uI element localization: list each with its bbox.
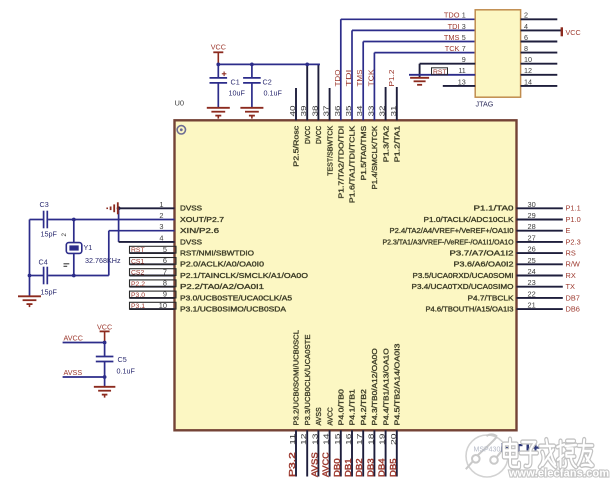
wire pin 18 stub <box>373 430 375 476</box>
svg-text:RX: RX <box>566 271 576 280</box>
wire C5 to ground <box>104 377 106 387</box>
wire pin 14 stub <box>329 430 331 476</box>
svg-text:3: 3 <box>462 22 466 31</box>
svg-text:P4.7/TBCLK: P4.7/TBCLK <box>468 293 514 302</box>
wire rail to ground <box>29 276 31 297</box>
svg-text:33: 33 <box>366 106 375 117</box>
svg-text:P4.0/TB0: P4.0/TB0 <box>337 389 346 425</box>
svg-text:Y1: Y1 <box>84 243 93 252</box>
svg-text:P3.5/UCA0RXD/UCA0SOMI: P3.5/UCA0RXD/UCA0SOMI <box>413 271 514 280</box>
wire pin 12 stub <box>306 430 308 476</box>
C1 plus mark <box>222 72 227 77</box>
wire pin 16 stub <box>351 430 353 476</box>
svg-text:15pF: 15pF <box>41 229 58 238</box>
wire pin 20 stub <box>396 430 398 476</box>
svg-text:VCC: VCC <box>97 322 112 331</box>
svg-text:TEST/SBWTCK: TEST/SBWTCK <box>325 126 334 176</box>
svg-text:C5: C5 <box>118 355 127 364</box>
port CS1 box <box>130 258 177 265</box>
wire pin 6 stub <box>130 263 175 265</box>
capacitor C2 <box>251 64 253 77</box>
wire TDO vertical <box>340 19 342 120</box>
svg-text:P1.5/TA0/TMS: P1.5/TA0/TMS <box>359 126 368 181</box>
svg-text:RST: RST <box>433 69 447 76</box>
svg-text:DB4: DB4 <box>378 458 387 477</box>
svg-text:10uF: 10uF <box>229 89 246 98</box>
svg-text:14: 14 <box>322 434 331 446</box>
port P3.1 box <box>130 302 177 309</box>
capacitor C4 <box>44 267 48 285</box>
svg-text:5: 5 <box>163 245 167 254</box>
wire crystal bottom <box>73 253 75 275</box>
wire pin 40 stub <box>295 88 297 120</box>
svg-text:AVCC: AVCC <box>64 333 83 342</box>
wire C4 to rail <box>30 275 44 277</box>
svg-text:XIN/P2.6: XIN/P2.6 <box>180 226 219 235</box>
svg-text:U0: U0 <box>175 99 185 108</box>
wire pin 13 stub <box>317 430 319 476</box>
svg-text:VCC: VCC <box>566 28 581 37</box>
svg-text:38: 38 <box>310 106 319 117</box>
svg-text:12: 12 <box>299 434 308 446</box>
svg-text:P1.0/TACLK/ADC10CLK: P1.0/TACLK/ADC10CLK <box>424 215 514 224</box>
svg-text:DB6: DB6 <box>566 305 580 314</box>
svg-text:DB7: DB7 <box>566 293 580 302</box>
svg-text:RST/NMI/SBWTDIO: RST/NMI/SBWTDIO <box>180 249 254 258</box>
ground crystal <box>18 295 41 297</box>
svg-text:26: 26 <box>528 245 536 254</box>
svg-text:P2.3: P2.3 <box>566 237 581 246</box>
svg-text:39: 39 <box>299 106 308 117</box>
wire AVCC <box>63 342 105 344</box>
wire TDI horizontal <box>352 29 475 31</box>
capacitor C5 <box>104 343 106 357</box>
svg-text:32.768KHz: 32.768KHz <box>85 256 121 265</box>
ground C2 <box>240 107 263 109</box>
svg-text:17: 17 <box>355 434 364 446</box>
port P2.2 box <box>130 280 177 287</box>
svg-text:AVCC: AVCC <box>325 407 334 425</box>
svg-text:P1.4/SMCLK/TCK: P1.4/SMCLK/TCK <box>370 126 379 190</box>
svg-text:2: 2 <box>61 233 68 237</box>
copyright marker inside U0 <box>177 126 185 134</box>
wire pin 19 stub <box>385 430 387 476</box>
svg-text:19: 19 <box>378 434 387 446</box>
junction AVCC <box>103 341 107 345</box>
wire pin 11 stub <box>295 430 297 476</box>
crystal pin 1 mark <box>64 264 70 267</box>
wire rail corner to pin38 <box>318 63 319 65</box>
junction C4 rail <box>28 274 32 278</box>
svg-text:9: 9 <box>163 290 167 299</box>
svg-text:RS: RS <box>566 249 576 258</box>
svg-text:TMS: TMS <box>444 33 460 42</box>
wire pin 21 <box>517 308 563 310</box>
svg-text:12: 12 <box>524 66 532 75</box>
wire TDI vertical <box>351 30 353 120</box>
svg-text:P3.3/UCB0CLK/UCA0STE: P3.3/UCB0CLK/UCA0STE <box>303 334 312 425</box>
junction XIN crystal <box>72 274 76 278</box>
svg-text:P3.1/UCB0SIMO/UCB0SDA: P3.1/UCB0SIMO/UCB0SDA <box>180 305 286 314</box>
svg-text:22: 22 <box>528 289 536 298</box>
svg-text:P4.5/TB2/A14/OA0I3: P4.5/TB2/A14/OA0I3 <box>393 344 402 426</box>
wire XOUT pin2 <box>48 219 174 221</box>
junction pin39 rail <box>305 63 309 67</box>
wire pin 38 to VCC rail <box>317 64 319 120</box>
svg-text:TCK: TCK <box>366 70 375 87</box>
svg-text:5: 5 <box>462 33 466 42</box>
svg-text:TDI: TDI <box>344 70 353 87</box>
svg-text:DVCC: DVCC <box>314 126 323 144</box>
wire TCK horizontal <box>374 52 475 54</box>
wire pin 7 stub <box>130 275 175 277</box>
svg-text:24: 24 <box>528 267 536 276</box>
wire JTAG pin 12 <box>521 74 558 76</box>
junction AVSS <box>103 375 107 379</box>
svg-text:JTAG: JTAG <box>476 99 494 108</box>
svg-text:P4.3/TB0/A12/OA0O: P4.3/TB0/A12/OA0O <box>370 348 379 426</box>
svg-text:DVSS: DVSS <box>180 204 202 213</box>
svg-text:XOUT/P2.7: XOUT/P2.7 <box>180 215 224 224</box>
capacitor C1 <box>217 64 219 77</box>
svg-text:P2.3/TA1/A3/VREF-/VeREF-/OA1I1: P2.3/TA1/A3/VREF-/VeREF-/OA1I1/OA1O <box>383 237 514 246</box>
wire JTAG pin 6 <box>521 41 558 43</box>
wire pin 32 stub <box>385 87 387 120</box>
svg-text:DVSS: DVSS <box>180 237 202 246</box>
svg-text:P1.2: P1.2 <box>387 70 396 87</box>
svg-text:11: 11 <box>458 66 465 75</box>
wire XIN vertical <box>108 231 110 276</box>
wire DVSS link pin1-pin4 <box>118 208 120 242</box>
junction XOUT crystal <box>72 218 76 222</box>
svg-text:32: 32 <box>378 106 387 117</box>
wire pin 25 <box>517 263 563 265</box>
svg-text:TMS: TMS <box>355 70 364 87</box>
wire JTAG pin 13 <box>443 85 475 87</box>
junction pin1/ground link <box>117 206 121 210</box>
ground C5 <box>94 386 116 388</box>
wire TDO horizontal <box>341 18 475 20</box>
svg-text:P4.4/TB1/A13/OA1O: P4.4/TB1/A13/OA1O <box>381 348 390 426</box>
svg-text:P1.3/TA2: P1.3/TA2 <box>381 126 390 162</box>
svg-text:11: 11 <box>288 434 297 446</box>
svg-text:R/W: R/W <box>566 260 580 269</box>
svg-text:40: 40 <box>288 106 297 117</box>
svg-text:P3.1: P3.1 <box>131 303 145 310</box>
svg-text:18: 18 <box>366 434 375 446</box>
svg-text:P2.2/TA0/A2/OA0I1: P2.2/TA0/A2/OA0I1 <box>180 282 264 291</box>
svg-text:DB2: DB2 <box>355 458 364 477</box>
svg-text:28: 28 <box>528 222 536 231</box>
wire XIN pin3 horizontal <box>109 230 175 232</box>
svg-text:DB5: DB5 <box>389 458 398 477</box>
wire crystal top <box>73 220 75 244</box>
svg-text:AVSS: AVSS <box>310 452 319 477</box>
svg-text:P3.0/UCB0STE/UCA0CLK/A5: P3.0/UCB0STE/UCA0CLK/A5 <box>180 293 292 302</box>
wire pin 9 stub <box>130 297 175 299</box>
svg-text:0.1uF: 0.1uF <box>117 367 136 376</box>
svg-text:1: 1 <box>462 11 466 20</box>
svg-text:7: 7 <box>462 44 466 53</box>
wire JTAG pin 9 to ground <box>420 63 476 65</box>
wire pin 39 to VCC rail <box>306 64 308 120</box>
svg-text:P2.1/TAINCLK/SMCLK/A1/OA0O: P2.1/TAINCLK/SMCLK/A1/OA0O <box>180 271 308 280</box>
wire XIN bottom row <box>48 275 109 277</box>
wire pin 31 stub <box>396 87 398 120</box>
svg-text:0.1uF: 0.1uF <box>264 89 283 98</box>
svg-text:TDI: TDI <box>448 22 460 31</box>
wire pin 27 <box>517 241 563 243</box>
wire TMS horizontal <box>363 41 475 43</box>
wire JTAG pin 14 <box>521 85 558 87</box>
svg-text:P3.4/UCA0TXD/UCA0SIMO: P3.4/UCA0TXD/UCA0SIMO <box>412 282 514 291</box>
svg-text:P4.2/TB2: P4.2/TB2 <box>359 389 368 425</box>
svg-text:E: E <box>566 226 571 235</box>
port P3.0 box <box>130 291 177 298</box>
svg-text:C4: C4 <box>39 257 48 266</box>
wire AVSS <box>63 376 105 378</box>
svg-text:P2.4/TA2/A4/VREF+/VeREF+/OA1I0: P2.4/TA2/A4/VREF+/VeREF+/OA1I0 <box>390 226 514 235</box>
svg-text:7: 7 <box>163 267 167 276</box>
svg-text:36: 36 <box>333 106 342 117</box>
wire pin 10 stub <box>130 308 175 310</box>
ground JTAG pin9 <box>410 78 429 85</box>
svg-text:P3.2/UCB0SOMI/UCB0SCL: P3.2/UCB0SOMI/UCB0SCL <box>292 330 301 426</box>
svg-text:34: 34 <box>355 106 364 117</box>
capacitor C3 <box>44 211 48 229</box>
svg-text:20: 20 <box>389 434 398 446</box>
svg-text:27: 27 <box>528 233 536 242</box>
svg-text:30: 30 <box>528 200 536 209</box>
svg-text:P2.5/Rosc: P2.5/Rosc <box>292 125 301 166</box>
wire pin 26 <box>517 252 563 254</box>
junction C2 rail <box>250 63 254 67</box>
svg-text:P3.2: P3.2 <box>288 452 297 477</box>
svg-text:AVCC: AVCC <box>322 452 331 477</box>
wire JTAG pin 8 <box>521 52 558 54</box>
svg-text:www.elecfans.com: www.elecfans.com <box>508 468 609 480</box>
svg-text:CS1: CS1 <box>131 258 144 265</box>
wire VCC rail <box>218 63 319 65</box>
wire JTAG pin 4 <box>521 29 561 31</box>
wire pin 15 stub <box>340 430 342 476</box>
wire C3 to rail <box>30 219 44 221</box>
crystal Y1 <box>66 243 82 254</box>
svg-text:6: 6 <box>163 256 167 265</box>
svg-text:P4.6/TBOUTH/A15/OA1I3: P4.6/TBOUTH/A15/OA1I3 <box>426 305 514 314</box>
port CS2 box <box>130 269 177 276</box>
svg-text:P3.0: P3.0 <box>131 292 145 299</box>
wire JTAG pin 2 <box>521 18 558 20</box>
svg-text:29: 29 <box>528 211 536 220</box>
svg-text:8: 8 <box>163 279 167 288</box>
wire pin 30 <box>517 207 563 209</box>
svg-text:P1.2/TA1: P1.2/TA1 <box>393 126 402 162</box>
svg-text:AVSS: AVSS <box>64 368 83 377</box>
svg-text:15: 15 <box>333 434 342 446</box>
svg-text:DB1: DB1 <box>344 458 353 477</box>
svg-text:RST: RST <box>131 247 145 254</box>
svg-text:23: 23 <box>528 278 536 287</box>
wire pin 29 <box>517 219 563 221</box>
svg-text:10: 10 <box>159 301 167 310</box>
watermark logo circle <box>466 435 508 477</box>
svg-text:37: 37 <box>322 106 331 117</box>
svg-text:DB3: DB3 <box>366 458 375 477</box>
svg-text:C2: C2 <box>263 77 272 86</box>
svg-text:C3: C3 <box>40 200 49 209</box>
svg-text:25: 25 <box>528 256 536 265</box>
wire ground rail left <box>29 220 31 276</box>
wire JTAG pin 11 RST <box>409 74 475 76</box>
wire pin 24 <box>517 275 563 277</box>
svg-text:P2.0/ACLK/A0/OA0I0: P2.0/ACLK/A0/OA0I0 <box>180 260 264 269</box>
svg-text:AVSS: AVSS <box>314 407 323 425</box>
svg-text:TX: TX <box>566 282 576 291</box>
ground sideways at pin1 <box>107 202 118 214</box>
svg-text:13: 13 <box>310 434 319 446</box>
svg-text:CS2: CS2 <box>131 270 144 277</box>
wire JTAG pin 10 <box>521 63 558 65</box>
JTAG connector body <box>475 10 520 97</box>
wire pin 23 <box>517 286 563 288</box>
wire pin 28 <box>517 230 563 232</box>
watermark text dianzifashaoyou (drawn strokes) <box>504 439 593 467</box>
svg-text:35: 35 <box>344 106 353 117</box>
svg-text:TDO: TDO <box>444 11 460 20</box>
svg-text:C1: C1 <box>231 77 240 86</box>
svg-text:TCK: TCK <box>445 44 460 53</box>
VCC symbol at JTAG pin4 <box>561 27 563 36</box>
svg-text:TDO: TDO <box>333 69 342 86</box>
svg-text:21: 21 <box>528 301 536 310</box>
junction VCC stem <box>216 63 220 67</box>
wire pin 17 stub <box>362 430 364 476</box>
wire DVSS pin4 <box>119 241 175 243</box>
svg-text:P1.6/TA1/TDI/TCLK: P1.6/TA1/TDI/TCLK <box>348 126 357 203</box>
svg-text:P1.1: P1.1 <box>566 204 581 213</box>
svg-text:16: 16 <box>344 434 353 446</box>
wire pin 22 <box>517 297 563 299</box>
svg-text:P3.6/A6/OA0I2: P3.6/A6/OA0I2 <box>454 260 514 269</box>
svg-text:P2.2: P2.2 <box>131 281 145 288</box>
port RST box <box>130 246 177 253</box>
svg-text:DVCC: DVCC <box>303 126 312 144</box>
svg-text:P1.0: P1.0 <box>566 215 581 224</box>
svg-text:VCC: VCC <box>211 43 226 52</box>
MCU U0 body <box>175 120 517 430</box>
svg-text:P3.7/A7/OA1I2: P3.7/A7/OA1I2 <box>450 249 514 258</box>
wire TMS vertical <box>362 42 364 121</box>
svg-text:P1.7/TA2/TDO/TDI: P1.7/TA2/TDO/TDI <box>337 126 346 199</box>
wire pin 5 stub <box>130 252 175 254</box>
wire TCK vertical <box>373 53 375 121</box>
wire pin 37 stub <box>329 88 331 120</box>
wire DVSS pin1 to ground <box>119 207 175 209</box>
svg-text:15pF: 15pF <box>41 287 58 296</box>
port RST box at JTAG <box>432 68 448 75</box>
svg-text:DB0: DB0 <box>333 458 342 477</box>
svg-text:31: 31 <box>389 106 398 117</box>
ground C1 <box>207 107 230 109</box>
svg-text:P1.1/TA0: P1.1/TA0 <box>474 204 514 213</box>
svg-text:P4.1/TB1: P4.1/TB1 <box>348 389 357 425</box>
wire pin 8 stub <box>130 286 175 288</box>
